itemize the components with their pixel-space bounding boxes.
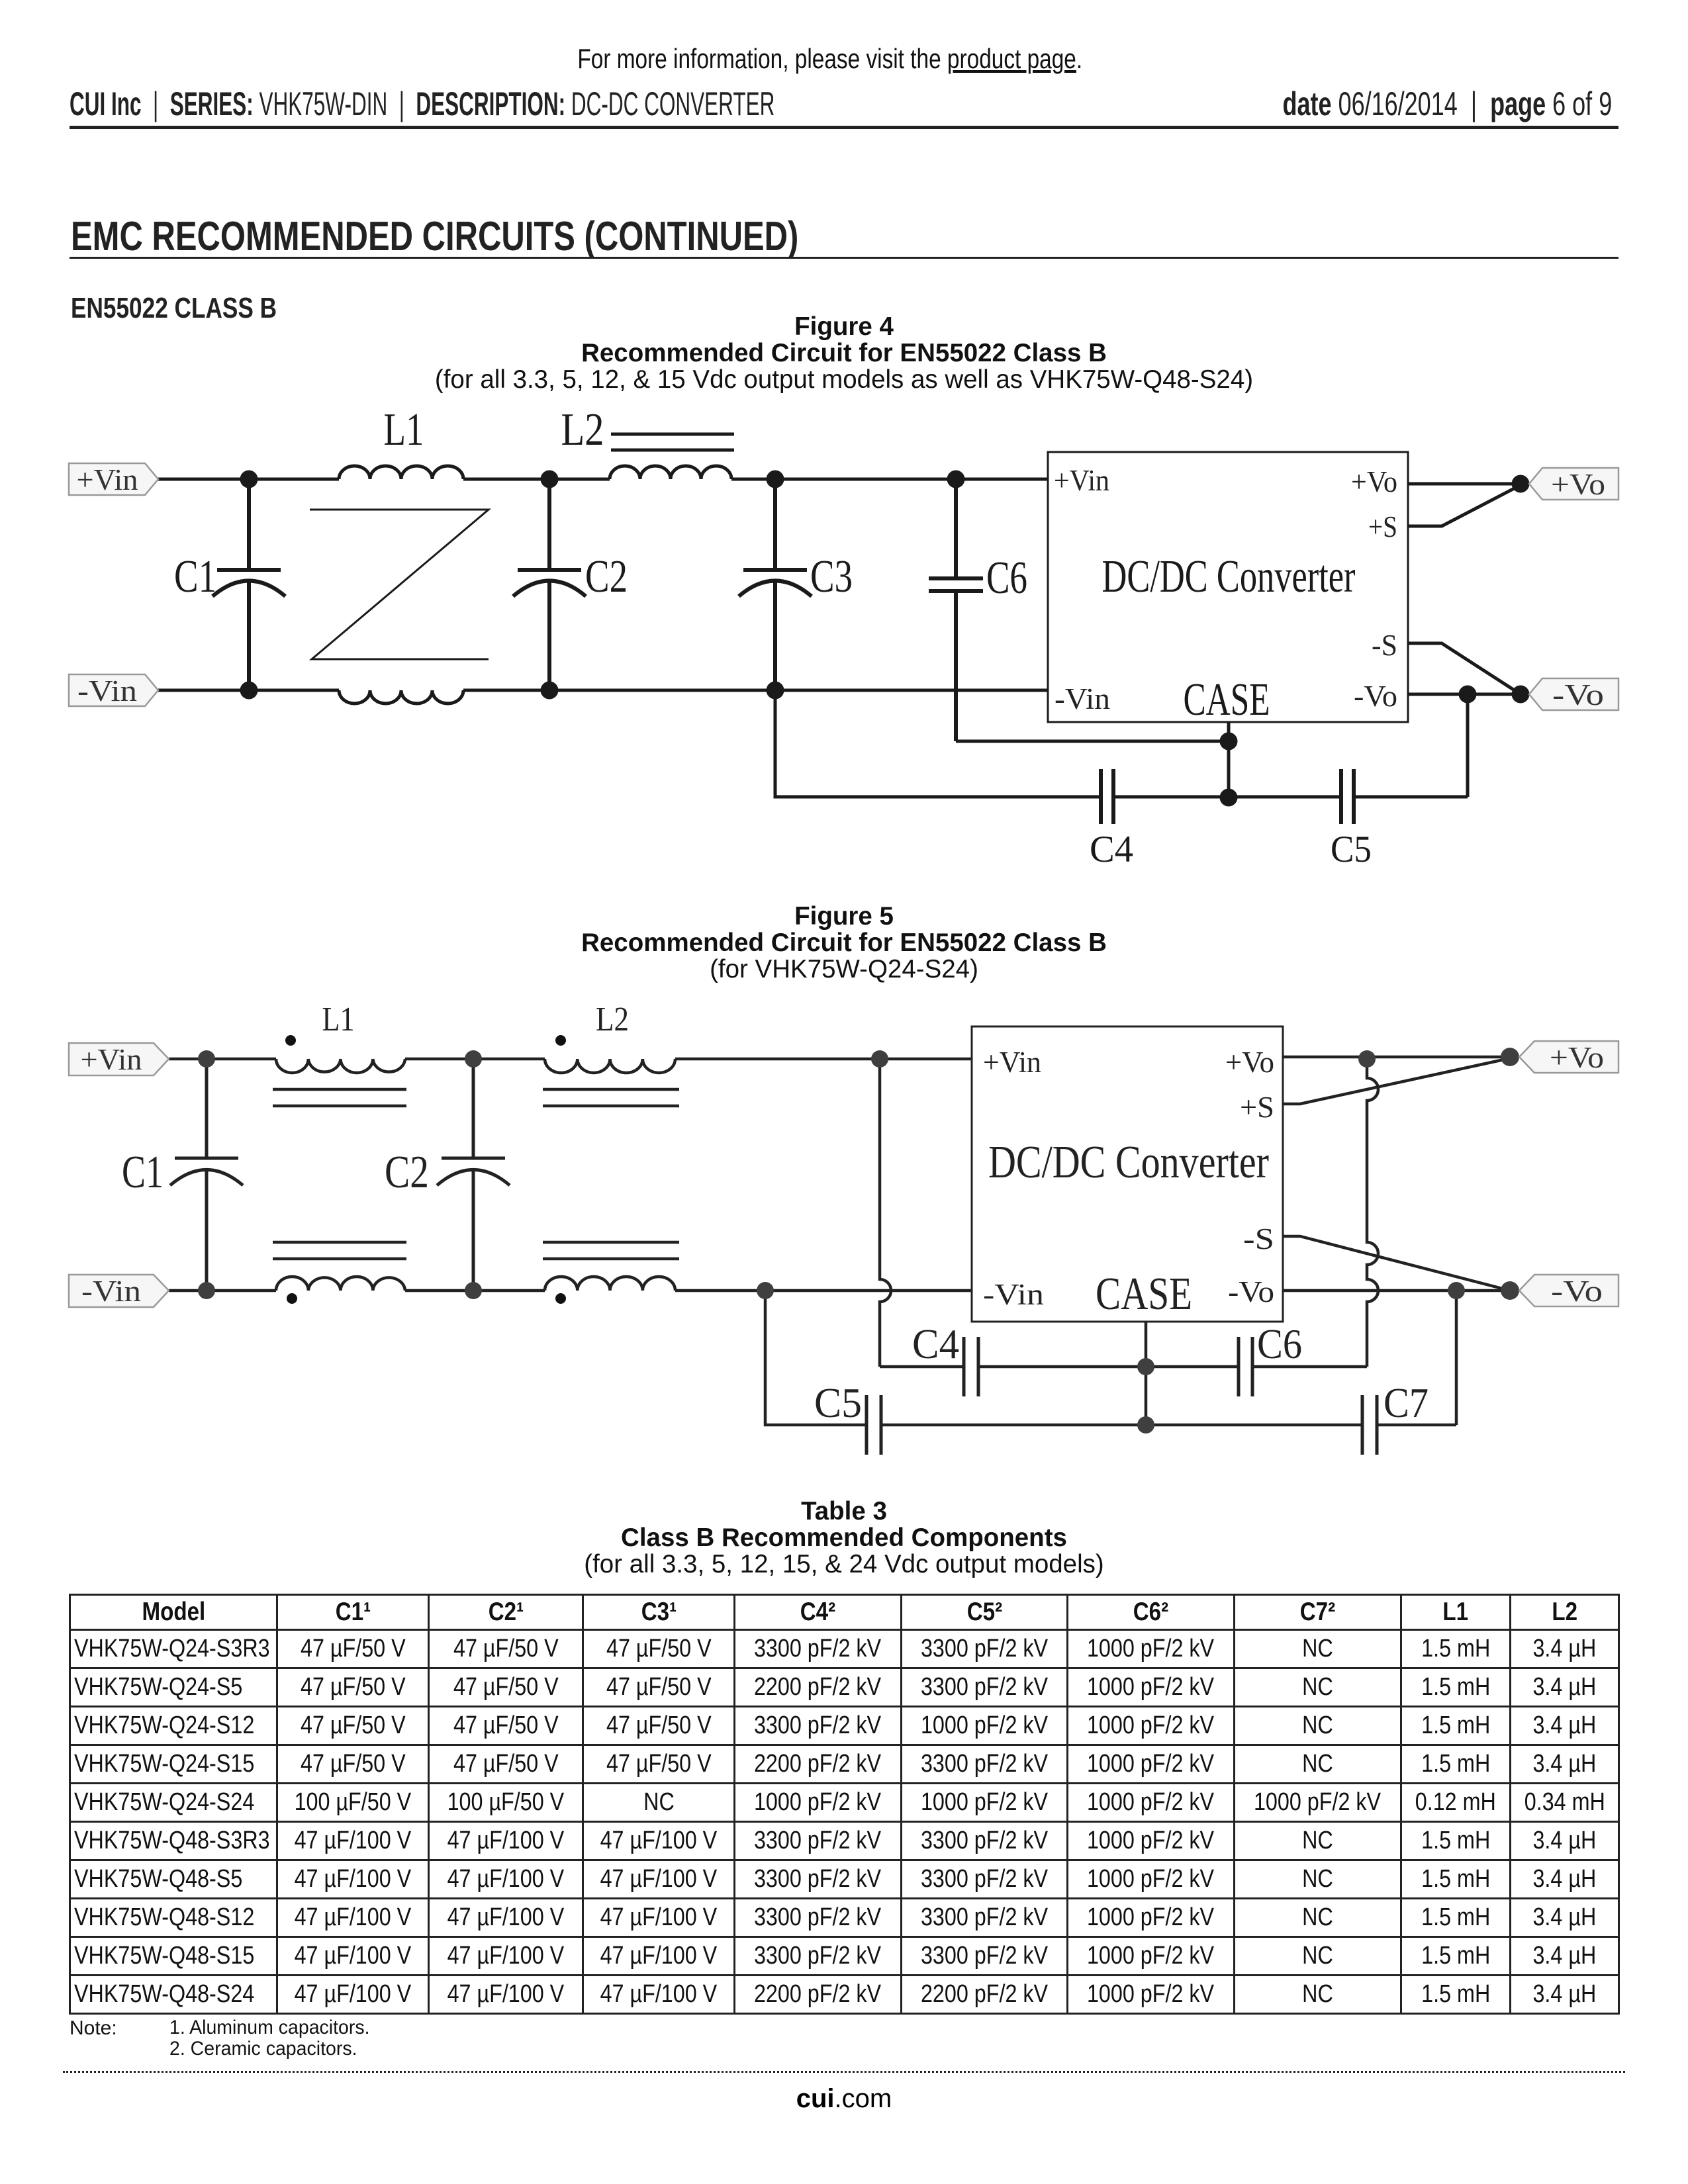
svg-text:C6: C6: [986, 553, 1027, 604]
svg-text:L2: L2: [596, 1001, 629, 1038]
svg-text:C2: C2: [585, 551, 628, 602]
svg-text:+Vin: +Vin: [983, 1046, 1041, 1079]
svg-text:DC/DC Converter: DC/DC Converter: [988, 1137, 1269, 1188]
svg-text:+Vo: +Vo: [1225, 1046, 1274, 1079]
svg-text:+Vin: +Vin: [81, 1042, 142, 1076]
svg-text:C2: C2: [385, 1147, 429, 1198]
svg-text:+Vin: +Vin: [1054, 464, 1109, 497]
svg-text:+S: +S: [1368, 510, 1397, 543]
svg-text:C1: C1: [174, 551, 216, 602]
svg-text:C6: C6: [1257, 1320, 1302, 1367]
svg-text:-Vo: -Vo: [1552, 678, 1604, 711]
svg-text:DC/DC Converter: DC/DC Converter: [1102, 551, 1356, 602]
svg-text:C3: C3: [810, 551, 853, 602]
svg-text:C5: C5: [814, 1379, 862, 1426]
svg-text:L1: L1: [322, 1001, 355, 1038]
svg-text:-Vo: -Vo: [1354, 680, 1397, 713]
svg-text:+Vo: +Vo: [1351, 465, 1397, 498]
svg-text:CASE: CASE: [1184, 674, 1270, 725]
svg-text:-Vin: -Vin: [81, 1274, 141, 1308]
svg-text:+Vo: +Vo: [1551, 467, 1605, 501]
svg-text:L1: L1: [384, 404, 424, 455]
svg-text:C4: C4: [912, 1320, 959, 1367]
svg-text:-Vin: -Vin: [983, 1278, 1044, 1311]
svg-text:C5: C5: [1331, 829, 1372, 870]
svg-text:-Vo: -Vo: [1228, 1275, 1274, 1308]
svg-text:+Vo: +Vo: [1550, 1040, 1604, 1074]
svg-text:+Vin: +Vin: [77, 463, 138, 496]
svg-text:-S: -S: [1243, 1222, 1274, 1255]
svg-text:CASE: CASE: [1096, 1269, 1192, 1320]
svg-text:C7: C7: [1383, 1379, 1429, 1426]
svg-text:-Vin: -Vin: [1055, 682, 1110, 715]
svg-text:-Vo: -Vo: [1551, 1274, 1603, 1308]
svg-text:+S: +S: [1240, 1091, 1274, 1124]
svg-text:-S: -S: [1372, 629, 1397, 662]
svg-text:L2: L2: [561, 404, 604, 455]
svg-text:-Vin: -Vin: [77, 674, 137, 707]
svg-text:C4: C4: [1090, 829, 1133, 870]
svg-text:C1: C1: [122, 1147, 164, 1198]
